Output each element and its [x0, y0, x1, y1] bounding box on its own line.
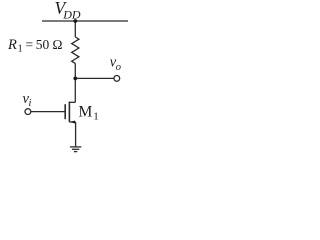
VDD supply rail: [42, 20, 128, 22]
svg-text:1: 1: [18, 44, 23, 55]
terminal vo: [114, 76, 120, 82]
svg-text:o: o: [116, 62, 121, 73]
svg-text:R: R: [7, 37, 17, 53]
node drain junction dot: [73, 77, 77, 81]
wire source lead: [69, 121, 75, 123]
wire VDD rail to resistor: [74, 21, 76, 37]
wire gate input: [31, 111, 65, 113]
transistor M1 channel bar: [68, 102, 70, 122]
wire resistor to drain node: [74, 63, 76, 102]
transistor M1 source arrow: [70, 121, 75, 124]
svg-text:1: 1: [93, 111, 99, 123]
wire output node to vo terminal: [75, 77, 114, 79]
svg-text:DD: DD: [62, 7, 81, 21]
wire source to ground: [75, 122, 77, 147]
ground: [70, 146, 81, 148]
resistor R1: [72, 37, 79, 63]
terminal vi: [25, 109, 31, 115]
wire drain lead: [69, 101, 75, 103]
svg-text:Ω: Ω: [52, 37, 62, 52]
node VDD junction dot: [73, 19, 77, 23]
svg-text:=: =: [26, 37, 34, 52]
transistor M1 gate bar: [64, 104, 66, 119]
svg-text:i: i: [29, 98, 32, 109]
svg-text:M: M: [79, 104, 93, 121]
svg-text:50: 50: [36, 37, 50, 52]
